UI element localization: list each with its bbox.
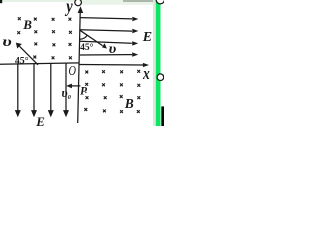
circle marker top (over y-axis tip) <box>75 0 82 6</box>
v0 arrow shaft at P <box>71 85 80 87</box>
E down arrow 3 <box>50 63 52 111</box>
down arrowhead 2 <box>31 110 37 117</box>
v arrowhead top-right <box>102 43 107 48</box>
right arrowhead 3 <box>132 41 138 45</box>
v arrow top-left diagonal <box>20 46 39 65</box>
scrollbar pale green strip <box>153 0 156 126</box>
svg-text:υ: υ <box>2 34 12 50</box>
P dot <box>85 92 86 93</box>
B field cross marks <box>17 17 140 113</box>
circle marker right (over strip) <box>157 74 164 81</box>
E down arrow 2 <box>33 64 35 111</box>
svg-text:E: E <box>142 30 152 45</box>
y-axis <box>78 9 81 124</box>
boundary line left of origin <box>0 63 79 64</box>
bottom-right grid row 1 <box>85 71 88 74</box>
top pale green band thin left <box>0 0 153 2</box>
v arrow top-right diagonal <box>80 30 103 45</box>
top-left grid row 4 <box>33 56 36 59</box>
down arrowhead 1 <box>15 110 21 117</box>
bottom-right grid row 3 <box>86 96 89 99</box>
svg-text:P: P <box>80 86 88 98</box>
top-left grid row 3 <box>34 42 37 45</box>
E right arrow 4 <box>80 54 132 56</box>
scrollbar bright green strip <box>156 0 161 126</box>
svg-text:B: B <box>124 96 134 111</box>
svg-text:B: B <box>22 17 32 32</box>
top-left corner black mark <box>0 0 2 3</box>
top gray-green line segment <box>123 0 153 2</box>
top-left grid row 1 <box>18 17 21 20</box>
svg-text:45°: 45° <box>80 42 94 53</box>
E down arrow 4 <box>65 63 67 111</box>
E down arrow 1 <box>17 64 19 111</box>
E right arrow 1 <box>80 18 132 19</box>
svg-text:x: x <box>142 65 150 84</box>
right arrowhead 1 <box>132 17 138 21</box>
y-axis arrowhead <box>78 6 84 13</box>
x-axis <box>79 64 143 67</box>
down arrowhead 4 <box>63 110 69 117</box>
E right arrow 3 <box>80 41 132 43</box>
svg-text:O: O <box>69 62 77 78</box>
circle marker top-right (over strip) <box>156 0 164 4</box>
45 degree arc top-right <box>80 35 87 39</box>
bottom-right grid row 2 <box>85 83 88 86</box>
right arrowhead 2 <box>132 29 138 33</box>
top-left grid row 2 <box>17 31 20 34</box>
svg-text:45°: 45° <box>15 55 29 66</box>
svg-text:y: y <box>65 0 74 16</box>
right arrowhead 4 <box>132 52 138 56</box>
down arrowhead 3 <box>48 110 54 117</box>
v0 arrowhead <box>66 84 72 89</box>
x-axis arrowhead <box>143 63 149 67</box>
v arrowhead top-left <box>16 43 22 49</box>
svg-text:E: E <box>35 115 45 126</box>
E right arrow 2 <box>80 30 132 31</box>
svg-text:υ: υ <box>109 42 117 57</box>
top pale green band right <box>81 0 153 5</box>
bottom-right grid row 4 <box>84 108 87 111</box>
scrollbar black bar bottom right <box>161 106 164 126</box>
